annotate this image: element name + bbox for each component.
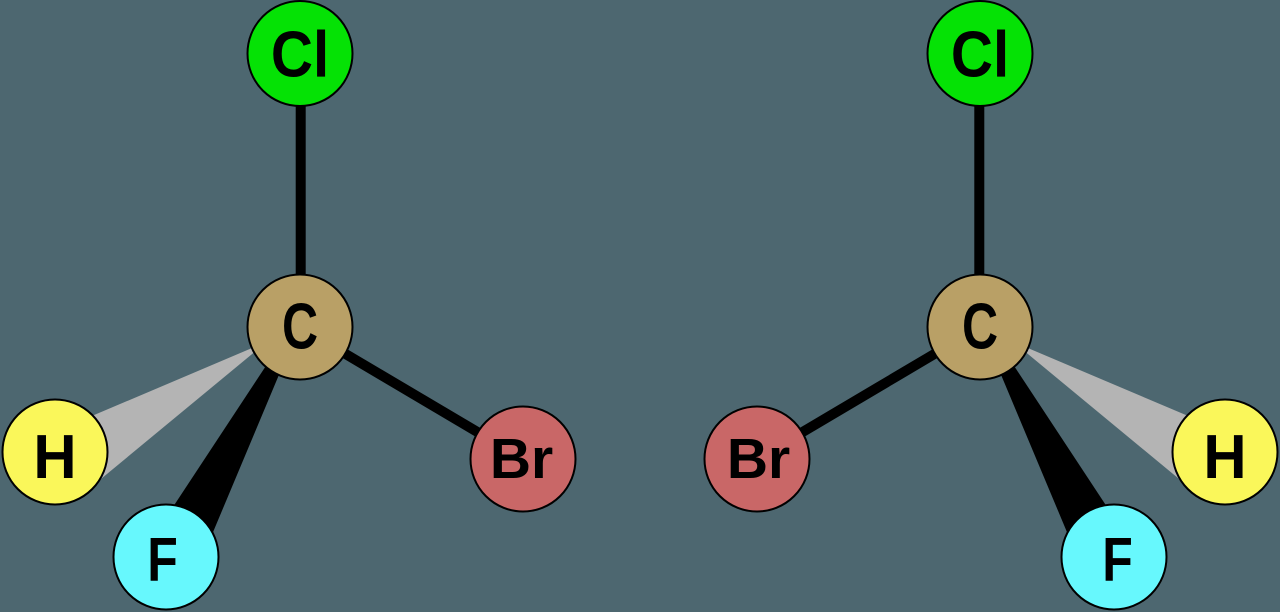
svg-text:Cl: Cl (271, 17, 329, 90)
svg-text:Cl: Cl (951, 17, 1009, 90)
svg-text:C: C (282, 289, 318, 362)
wire bond C-Br (right) (757, 327, 980, 459)
right molecule (mirror image) (705, 1, 1278, 610)
atom Br (right) (705, 407, 810, 512)
svg-text:Br: Br (490, 427, 553, 491)
wire bond C-Cl (right) (974, 53, 984, 327)
wedge bond C-F (left, solid black) (137, 296, 312, 562)
atom C (right) (928, 275, 1033, 380)
atom Br (left) (471, 407, 576, 512)
wedge bond C-H (left, gray) (90, 342, 267, 488)
atom Cl (left) (248, 1, 353, 106)
atom H (right) (1173, 400, 1278, 505)
svg-text:F: F (1102, 526, 1133, 595)
svg-text:C: C (962, 289, 998, 362)
svg-text:H: H (33, 423, 76, 492)
svg-text:F: F (147, 526, 178, 595)
wire bond C-Cl (left) (296, 53, 306, 327)
wedge bond C-H (right, gray) (1013, 342, 1190, 488)
atom H (left) (3, 400, 108, 505)
atom C (left) (248, 275, 353, 380)
svg-text:H: H (1203, 423, 1246, 492)
svg-text:Br: Br (727, 427, 790, 491)
wedge bond C-F (right, solid black) (968, 296, 1143, 562)
atom Cl (right) (928, 1, 1033, 106)
left molecule (3, 1, 576, 610)
wire bond C-Br (left) (300, 327, 523, 459)
atom F (left) (114, 505, 219, 610)
atom F (right) (1062, 505, 1167, 610)
